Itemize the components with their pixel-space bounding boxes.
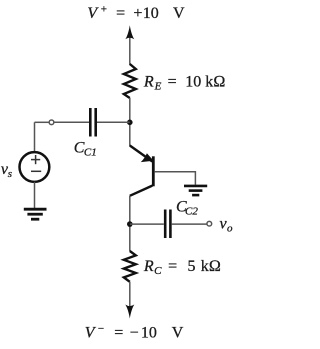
- node: input junction dot: [127, 120, 133, 126]
- wire base to ground: [155, 172, 196, 185]
- source vs (circle with + -): [20, 152, 50, 182]
- transistor Q1 base bar: [152, 156, 155, 186]
- wire CC1 to junction: [97, 121, 130, 123]
- label RE = 10 kOhm: [143, 73, 226, 92]
- capacitor CC1: [90, 108, 95, 137]
- transistor Q1 collector lead: [130, 186, 153, 196]
- label RC = 5 kOhm: [143, 258, 221, 277]
- label CC2: [176, 198, 198, 217]
- label vs: [1, 161, 12, 180]
- resistor RC: [124, 251, 136, 282]
- ground (source): [24, 209, 47, 219]
- wire terminal to CC1: [54, 121, 89, 123]
- transistor Q1 emitter arrowhead: [141, 153, 154, 162]
- transistor Q1 emitter lead: [130, 146, 153, 162]
- output terminal (open circle): [207, 221, 212, 226]
- V- supply arrow (down): [125, 282, 134, 319]
- label CC1: [74, 140, 97, 159]
- wire source to input terminal: [35, 121, 49, 123]
- net label V- = -10 V: [85, 323, 184, 342]
- V+ supply arrow (up): [125, 25, 134, 64]
- wire junction to CC2: [130, 223, 164, 225]
- wire collector down to output junction: [129, 196, 131, 251]
- wire terminal down to source: [34, 122, 36, 152]
- capacitor CC2: [165, 210, 170, 239]
- wire RE bottom to emitter: [129, 98, 131, 146]
- label vo: [220, 216, 234, 235]
- wire CC2 to output terminal: [172, 223, 207, 225]
- wire source to ground: [34, 182, 36, 209]
- net label V+ = +10 V: [87, 4, 185, 23]
- input terminal (open circle): [49, 120, 54, 125]
- resistor RE: [124, 64, 136, 98]
- ground (base): [184, 186, 207, 195]
- node: output junction dot: [127, 221, 133, 227]
